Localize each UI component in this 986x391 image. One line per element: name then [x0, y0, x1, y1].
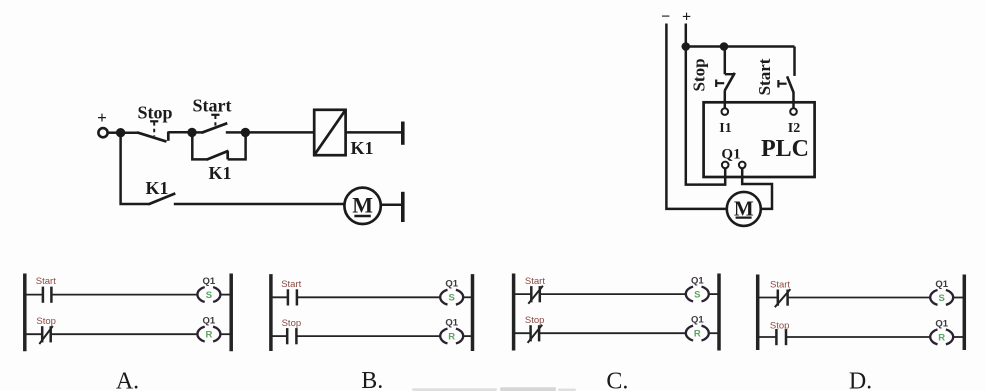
svg-text:Q1: Q1 — [445, 279, 458, 290]
node C junction — [241, 128, 250, 137]
contact Start (NO) A — [36, 276, 56, 303]
contact Start (NC) D — [770, 280, 790, 308]
terminal Q1 right circle + wire to motor — [739, 162, 772, 209]
rail left C — [512, 274, 516, 351]
rail right A — [229, 274, 233, 352]
contact Start (NC) C — [525, 276, 545, 304]
motor M (top-left circuit) — [344, 188, 380, 224]
rung wire D1 — [758, 297, 965, 299]
svg-text:+: + — [682, 9, 691, 26]
contact Stop (NO) B — [282, 318, 302, 345]
contact Stop (NC) C — [525, 315, 545, 343]
terminal + supply (top-left) — [97, 108, 107, 137]
wire — [168, 131, 188, 134]
coil Q1 Set A — [197, 276, 220, 302]
svg-text:S: S — [939, 293, 945, 304]
rail right D — [963, 275, 967, 351]
svg-text:PLC: PLC — [761, 136, 809, 162]
positive rail wire — [686, 24, 725, 185]
rung wire A1 — [25, 294, 231, 296]
rung wire A2 — [25, 333, 231, 335]
wire — [381, 204, 402, 207]
svg-text:R: R — [938, 332, 945, 343]
svg-text:Q1: Q1 — [691, 276, 704, 287]
node junction on + rail — [682, 42, 691, 51]
node junction stop branch — [720, 42, 729, 51]
coil Q1 Reset C — [686, 315, 709, 341]
svg-text:M: M — [352, 193, 373, 218]
negative rail wire — [666, 24, 727, 209]
svg-text:Stop: Stop — [36, 316, 56, 327]
rail right C — [717, 274, 721, 351]
wire — [346, 131, 402, 134]
contact K1 auxiliary (NO) parallel branch — [192, 135, 245, 183]
wire from node A down to motor rung — [121, 133, 149, 204]
rail left A — [23, 274, 27, 352]
coil Q1 Set C — [686, 276, 709, 302]
svg-text:C.: C. — [606, 368, 628, 391]
svg-text:Stop: Stop — [137, 103, 172, 123]
node A junction — [116, 128, 125, 137]
rung wire C1 — [514, 293, 719, 295]
svg-text:Q1: Q1 — [203, 276, 216, 287]
contact K1 (NO) motor rung — [145, 178, 175, 204]
svg-text:Q1: Q1 — [691, 315, 704, 326]
pushbutton Stop (NC) — [137, 103, 172, 142]
wire — [174, 203, 345, 206]
coil Q1 Reset B — [440, 318, 463, 344]
pushbutton Stop (NC, vertical) — [690, 47, 735, 109]
rung wire D2 — [758, 336, 965, 338]
svg-text:S: S — [206, 290, 212, 301]
motor M (PLC circuit) — [727, 192, 761, 226]
coil Q1 Set B — [440, 279, 463, 305]
svg-text:Stop: Stop — [770, 320, 790, 331]
rail right B — [471, 274, 475, 351]
svg-text:+: + — [97, 108, 107, 127]
wire — [245, 131, 314, 134]
svg-text:Start: Start — [770, 280, 790, 291]
svg-text:Start: Start — [525, 276, 545, 287]
pushbutton Start (NO) — [192, 96, 241, 133]
svg-text:R: R — [694, 329, 701, 340]
contact Stop (NO) D — [770, 320, 790, 345]
relay coil K1 — [314, 110, 373, 158]
contact Start (NO) B — [281, 279, 301, 306]
svg-text:K1: K1 — [208, 163, 231, 183]
wire — [121, 131, 138, 134]
svg-text:I2: I2 — [788, 121, 800, 136]
svg-text:A.: A. — [116, 368, 139, 391]
svg-text:Start: Start — [755, 58, 774, 95]
contact Stop (NC) A — [36, 316, 56, 344]
svg-text:Start: Start — [193, 96, 232, 116]
rung wire C2 — [514, 332, 719, 334]
svg-text:Stop: Stop — [690, 58, 709, 91]
svg-text:S: S — [694, 290, 700, 301]
pushbutton Start (NO, vertical) — [755, 47, 795, 109]
svg-text:Q1: Q1 — [203, 316, 216, 327]
terminal end bar (rung 1) — [401, 122, 405, 145]
node B junction — [187, 128, 196, 137]
svg-text:Q1: Q1 — [721, 147, 740, 163]
svg-text:K1: K1 — [350, 138, 373, 158]
PLC box — [704, 102, 815, 177]
svg-text:Stop: Stop — [282, 318, 302, 329]
wire top feed — [686, 45, 795, 48]
svg-text:R: R — [448, 332, 455, 343]
coil Q1 Reset A — [197, 316, 220, 342]
rail left B — [269, 274, 273, 351]
svg-text:−: − — [661, 9, 670, 26]
rail left D — [756, 275, 760, 351]
watermark remnant bottom center — [412, 387, 576, 391]
terminal end bar (motor rung) — [401, 192, 405, 222]
terminal Q1 left circle — [722, 162, 729, 169]
coil Q1 Set D — [930, 279, 953, 305]
svg-text:Start: Start — [36, 276, 56, 287]
svg-text:Q1: Q1 — [935, 318, 948, 329]
svg-text:K1: K1 — [145, 178, 168, 198]
terminal I1 circle — [722, 108, 729, 115]
svg-text:Q1: Q1 — [445, 318, 458, 329]
svg-text:B.: B. — [361, 368, 383, 391]
svg-text:D.: D. — [849, 368, 872, 391]
rung wire B2 — [271, 335, 473, 337]
terminal I2 circle — [790, 108, 797, 115]
svg-text:Q1: Q1 — [935, 279, 948, 290]
svg-text:Stop: Stop — [525, 315, 545, 326]
coil Q1 Reset D — [930, 318, 953, 344]
svg-text:S: S — [449, 293, 455, 304]
wire — [108, 131, 117, 134]
svg-text:R: R — [205, 330, 212, 341]
rung wire B1 — [271, 296, 473, 298]
svg-text:Start: Start — [281, 279, 301, 290]
svg-text:I1: I1 — [719, 121, 731, 136]
